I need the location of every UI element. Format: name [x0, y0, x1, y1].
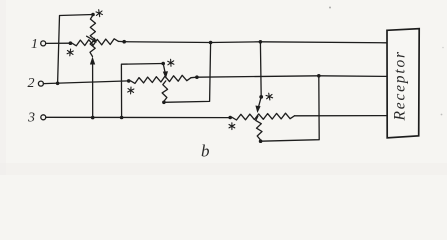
R1 wiper shaft down to line 3: [92, 63, 94, 118]
junction dot R3 return on line 2: [317, 74, 321, 78]
wire R2 track right: [191, 76, 197, 79]
terminal circle line 1: [41, 41, 46, 46]
asterisk R3 track: [229, 123, 235, 130]
receptor box: [387, 29, 419, 138]
wire line3 left: [46, 116, 229, 118]
asterisk R2 top: [168, 59, 174, 66]
resistor R3 lower vertical: [256, 116, 262, 139]
asterisk R1 top: [96, 10, 102, 17]
asterisk R1 track: [67, 49, 73, 56]
asterisk R2 track: [128, 87, 134, 94]
wire line 2 to receptor: [197, 76, 387, 77]
node dot R2 track right: [195, 75, 199, 79]
wire R2 top feed from line 3: [121, 64, 163, 118]
junction dot R2 track left: [127, 79, 131, 83]
svg-text:b: b: [201, 142, 210, 161]
wire R1 top feed from line 2: [58, 15, 93, 84]
potentiometer R2 track resistor: [131, 75, 192, 83]
potentiometer R1 track resistor: [72, 39, 119, 46]
wire R3 top feed from line 1: [259, 42, 262, 97]
wire line 3 to receptor: [295, 115, 388, 117]
junction dot R3 feed on line 1: [259, 40, 263, 44]
junction dot R2 feed on line 3: [120, 116, 124, 120]
junction dot R3 track left: [228, 116, 232, 120]
R2 wiper arrow shaft: [163, 64, 165, 74]
node dot R3 bottom: [259, 139, 263, 143]
svg-text:1: 1: [31, 37, 38, 52]
junction dot R1 wiper on line 3: [91, 116, 95, 120]
junction dot R1 feed on line 2: [56, 82, 60, 86]
wire line 1 to receptor: [124, 42, 387, 43]
wire line1 left: [46, 42, 71, 44]
R3 wiper arrowhead (points down): [255, 106, 260, 114]
terminal circle line 2: [38, 81, 43, 86]
junction dot R1 track left: [69, 41, 73, 45]
node dot R1 top: [91, 13, 95, 17]
resistor R1 vertical: [90, 15, 96, 57]
node dot R3 top: [259, 95, 263, 99]
R2 wiper arrowhead (points down): [163, 71, 168, 79]
wire line2 left: [44, 81, 129, 84]
resistor R2 lower vertical: [162, 81, 168, 101]
node dot R2 top: [161, 62, 165, 66]
R1 crossing diagonal arrow: [87, 36, 95, 41]
node dot R1 track right: [122, 40, 126, 44]
R1 wiper arrowhead (points up): [90, 57, 95, 65]
junction dot R2 return on line 1: [209, 41, 213, 45]
potentiometer R3 track resistor: [232, 113, 295, 120]
svg-text:Receptor: Receptor: [392, 50, 409, 121]
R2 return wire up to line 1: [164, 43, 211, 103]
svg-text:3: 3: [27, 111, 35, 126]
terminal circle line 3: [41, 115, 46, 120]
wire R1 track right: [119, 40, 125, 42]
svg-text:2: 2: [28, 76, 35, 91]
node dot R2 bottom: [162, 101, 166, 105]
asterisk R3 top: [266, 93, 273, 100]
R3 return wire up to line 2: [261, 76, 320, 141]
R3 wiper arrow shaft: [258, 97, 261, 108]
